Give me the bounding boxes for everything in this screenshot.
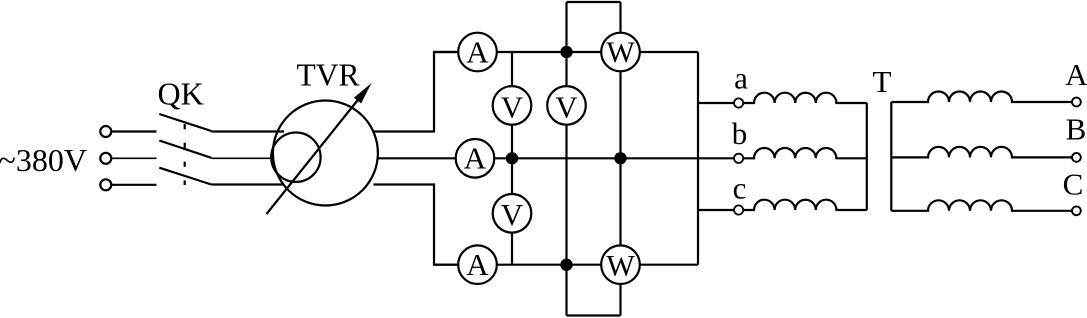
svg-text:c: c: [733, 171, 747, 206]
svg-text:B: B: [1066, 111, 1087, 146]
svg-text:V: V: [501, 89, 524, 124]
svg-text:a: a: [734, 61, 748, 96]
svg-text:V: V: [555, 89, 578, 124]
svg-text:A: A: [1065, 57, 1087, 92]
svg-text:W: W: [606, 249, 635, 282]
svg-text:C: C: [1063, 167, 1084, 202]
svg-text:T: T: [873, 64, 892, 99]
svg-text:W: W: [606, 36, 635, 69]
svg-text:A: A: [466, 34, 489, 69]
svg-text:V: V: [501, 197, 524, 232]
svg-text:b: b: [732, 116, 748, 151]
svg-text:A: A: [464, 141, 487, 176]
svg-text:QK: QK: [158, 75, 204, 111]
svg-text:~380V: ~380V: [0, 142, 87, 178]
svg-text:A: A: [466, 247, 489, 282]
svg-text:TVR: TVR: [297, 58, 360, 93]
